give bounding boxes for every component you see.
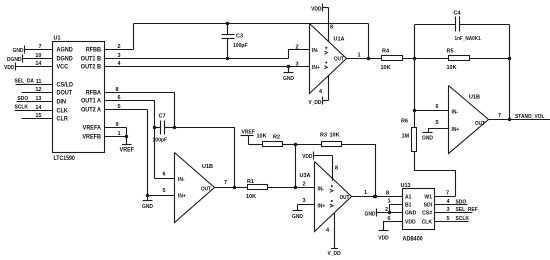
svg-text:1: 1	[388, 199, 391, 205]
svg-text:IN-: IN-	[178, 177, 185, 183]
svg-text:R1: R1	[247, 179, 254, 185]
svg-text:10K: 10K	[447, 65, 457, 71]
svg-text:1: 1	[358, 53, 361, 59]
svg-text:U1A: U1A	[334, 37, 345, 43]
capacitor C4 1nF	[415, 11, 510, 43]
wire OUT1A riser to IN-	[153, 101, 156, 179]
svg-text:6: 6	[388, 216, 391, 222]
wire R4 to R5	[403, 58, 449, 60]
svg-text:GND: GND	[292, 214, 303, 220]
svg-text:AD8400: AD8400	[403, 236, 423, 242]
U1 pin 11 wire	[16, 79, 53, 85]
power port VDD (U1A)	[311, 4, 328, 13]
svg-text:U1B: U1B	[469, 95, 480, 101]
ground symbol (U1B IN+)	[422, 133, 433, 142]
U1 pin 7 wire	[25, 44, 53, 50]
wire junction down to U3A IN-	[294, 145, 297, 190]
U13 pin 3 CS wire	[435, 207, 473, 213]
ground symbol (U13)	[365, 209, 377, 218]
svg-text:12: 12	[35, 87, 41, 93]
U1B(lower) pin 7 output wire	[215, 180, 248, 189]
IC U13 AD8400 digital potentiometer	[401, 183, 435, 243]
svg-text:RFBA: RFBA	[86, 91, 101, 97]
svg-text:1nF_NA0K1: 1nF_NA0K1	[455, 36, 481, 42]
svg-text:7: 7	[38, 44, 41, 50]
op-amp U1B (lower)	[175, 153, 215, 223]
wire R4 node to U1B IN-	[413, 59, 416, 113]
svg-text:RFBB: RFBB	[86, 48, 101, 54]
U1 pin 4 OUT2B wire	[105, 61, 310, 67]
svg-text:8: 8	[116, 87, 119, 93]
wire RFBB riser	[133, 24, 135, 50]
svg-text:5: 5	[163, 188, 166, 194]
svg-text:R2: R2	[273, 135, 280, 141]
U1 pin 10 wire	[23, 53, 53, 59]
svg-text:IN+: IN+	[318, 203, 326, 209]
power port V_DD (U1A)	[308, 97, 328, 107]
svg-text:10K: 10K	[246, 194, 256, 200]
ground symbol (U1A IN+)	[283, 67, 294, 83]
power port V_DD (U3A)	[328, 249, 341, 258]
svg-text:3: 3	[118, 53, 121, 59]
svg-text:AGND: AGND	[57, 48, 73, 54]
power port GND (U1 AGND)	[13, 46, 25, 55]
svg-text:R6: R6	[401, 119, 408, 125]
wire feedback drop to U1B output	[508, 59, 511, 122]
svg-text:10K: 10K	[330, 133, 340, 139]
svg-text:1: 1	[364, 190, 367, 196]
svg-text:OUT: OUT	[334, 56, 345, 62]
U1B pin 7 output wire	[489, 113, 550, 120]
svg-text:5: 5	[436, 120, 439, 126]
svg-text:OUT: OUT	[201, 186, 212, 192]
VREFA-VREFB tie wire	[125, 128, 128, 139]
wire R6 to W1 of U13	[415, 152, 456, 197]
wire C7 to output drop	[175, 128, 235, 188]
svg-text:R5: R5	[447, 49, 454, 55]
svg-text:OUT: OUT	[475, 121, 486, 127]
svg-text:1M: 1M	[402, 134, 410, 140]
svg-text:100pF: 100pF	[153, 137, 168, 143]
svg-text:5: 5	[447, 216, 450, 222]
svg-text:VREFA: VREFA	[83, 126, 101, 132]
U1A pin 4 power stub	[319, 76, 329, 101]
svg-text:VDD: VDD	[4, 65, 15, 71]
svg-text:IN+: IN+	[312, 65, 320, 71]
svg-text:OUT1 B: OUT1 B	[81, 57, 101, 63]
svg-text:U13: U13	[401, 183, 411, 189]
svg-text:SEL_DA: SEL_DA	[15, 78, 35, 84]
net label STAND_VOL	[515, 114, 545, 120]
svg-text:7: 7	[446, 191, 449, 197]
svg-text:U1: U1	[54, 36, 61, 42]
svg-text:V_DD: V_DD	[328, 251, 341, 257]
svg-text:13: 13	[35, 96, 41, 102]
wire OUT2A riser to IN+	[146, 110, 149, 198]
wire C4 right riser	[509, 25, 511, 59]
svg-text:SCLK: SCLK	[456, 216, 470, 222]
svg-text:CS/LD: CS/LD	[57, 83, 74, 89]
svg-text:2: 2	[385, 207, 388, 213]
svg-text:VREF: VREF	[242, 129, 255, 135]
svg-text:SDO: SDO	[456, 199, 467, 205]
svg-text:VDD: VDD	[302, 154, 313, 160]
svg-text:DGND: DGND	[57, 57, 73, 63]
U1A pin 3 label	[296, 62, 299, 68]
svg-text:14: 14	[35, 61, 42, 67]
svg-text:GND: GND	[13, 48, 24, 54]
svg-text:IN+: IN+	[178, 193, 186, 199]
wire feedback drop to U1A output	[368, 24, 370, 59]
svg-text:B1: B1	[405, 203, 412, 209]
svg-text:10K: 10K	[257, 134, 267, 140]
svg-text:STAND_VOL: STAND_VOL	[515, 114, 545, 120]
svg-text:U1B: U1B	[202, 164, 213, 170]
svg-text:SDO: SDO	[18, 96, 29, 102]
power port VDD (U3A)	[302, 152, 332, 161]
net label SDO (U1 DIN)	[18, 96, 29, 102]
svg-text:3: 3	[296, 62, 299, 68]
svg-text:DGND: DGND	[7, 57, 22, 63]
svg-text:10: 10	[35, 53, 41, 59]
U13 pin 2 GND wire	[377, 207, 403, 213]
svg-text:VCC: VCC	[57, 65, 69, 71]
svg-text:LTC1590: LTC1590	[54, 156, 75, 162]
svg-text:11: 11	[36, 79, 42, 85]
U1A pin 1 output wire	[347, 53, 382, 61]
resistor R5 10K	[447, 49, 512, 72]
capacitor C7 100pF	[153, 114, 175, 144]
svg-text:CS#: CS#	[422, 211, 432, 217]
svg-text:VDD: VDD	[311, 6, 322, 12]
net label SEL_REF	[456, 207, 478, 213]
svg-text:100pF: 100pF	[233, 43, 248, 49]
svg-text:8: 8	[330, 25, 333, 31]
capacitor C3 100pF	[222, 22, 249, 60]
resistor R3 10K	[296, 133, 342, 147]
U3A pin 3 wire	[298, 198, 315, 205]
U1 pin 9 VREFA wire	[105, 122, 127, 128]
svg-text:OUT1 A: OUT1 A	[81, 99, 101, 105]
svg-text:2: 2	[118, 44, 121, 50]
ground symbol (U1B lower IN+)	[142, 196, 153, 211]
net label SCLK (U1 CLK)	[15, 104, 29, 110]
U13 pin 1 B1 wire	[388, 199, 403, 215]
IC U1 LTC1590 dual DAC	[53, 36, 105, 163]
svg-text:V_DD: V_DD	[308, 100, 321, 106]
svg-text:GND: GND	[422, 135, 433, 141]
U3A pin 4 power stub	[326, 213, 335, 249]
wire R2 to junction	[283, 143, 298, 146]
U1 pin 1 VREFB wire	[105, 131, 127, 137]
resistor R4 10K	[381, 49, 403, 72]
svg-text:14: 14	[35, 105, 42, 111]
svg-text:7: 7	[224, 180, 227, 186]
op-amp U1B	[449, 86, 489, 154]
svg-text:SEL_REF: SEL_REF	[456, 207, 478, 213]
svg-text:IN+: IN+	[452, 127, 460, 133]
svg-text:VDD: VDD	[378, 235, 389, 241]
svg-text:GND: GND	[142, 204, 153, 210]
U13 pin 4 SDI wire	[435, 199, 468, 205]
U3A pin 2 label	[303, 182, 306, 188]
svg-text:3: 3	[303, 198, 306, 204]
wire RFBA riser	[173, 93, 176, 130]
U13 pin 5 CLK wire	[435, 216, 469, 222]
U1 pin 14 wire	[16, 61, 53, 67]
svg-text:2: 2	[303, 182, 306, 188]
power port VDD (U13)	[378, 231, 389, 242]
svg-text:CLK: CLK	[57, 109, 69, 115]
wire top feedback run (RFBB to U1A output)	[134, 23, 369, 25]
U1 pin 12 wire	[22, 87, 53, 93]
op-amp U3A	[300, 162, 352, 232]
svg-text:CLK: CLK	[422, 220, 433, 226]
net label SEL_DA	[15, 78, 35, 84]
svg-text:IN-: IN-	[452, 109, 459, 115]
svg-text:A1: A1	[405, 195, 412, 201]
svg-text:C4: C4	[454, 11, 462, 17]
svg-text:VDD: VDD	[405, 220, 416, 226]
svg-text:C7: C7	[159, 114, 166, 120]
svg-text:6: 6	[436, 104, 439, 110]
svg-text:OUT2 B: OUT2 B	[81, 65, 101, 71]
svg-text:6: 6	[163, 172, 166, 178]
power port DGND (U1 DGND)	[7, 55, 23, 64]
svg-text:8: 8	[386, 191, 389, 197]
svg-text:DOUT: DOUT	[57, 91, 73, 97]
svg-text:15: 15	[35, 113, 41, 119]
power port VREF (below U1)	[120, 137, 135, 154]
svg-text:3: 3	[447, 207, 450, 213]
svg-text:SDI: SDI	[424, 203, 433, 209]
svg-text:7: 7	[498, 113, 501, 119]
svg-text:6: 6	[118, 95, 121, 101]
U1 pin 13 wire	[17, 96, 53, 102]
resistor R2 10K	[249, 134, 283, 147]
U13 pin 6 VDD wire	[384, 216, 403, 231]
wire R3 to feedback corner	[342, 145, 378, 199]
U1 pin 3 OUT1B wire	[105, 53, 289, 59]
net label VREF (mid)	[241, 129, 255, 144]
svg-text:8: 8	[335, 166, 338, 172]
U1 pin 2 RFBB wire	[105, 44, 134, 50]
svg-text:U3A: U3A	[300, 173, 311, 179]
U1 pin 8 RFBA wire	[105, 87, 175, 93]
U1B(lower) IN- wire	[155, 172, 175, 179]
U3A pin 1 output wire	[352, 190, 403, 198]
ground symbol (U3A IN+)	[292, 205, 303, 221]
svg-text:10K: 10K	[381, 65, 391, 71]
svg-text:DIN: DIN	[57, 100, 66, 106]
U1 pin 5 OUT2A wire	[105, 104, 148, 110]
U1B IN+ wire	[429, 120, 449, 132]
svg-text:IN-: IN-	[312, 48, 319, 54]
svg-text:OUT: OUT	[340, 195, 351, 201]
wire R1 to U3A IN-	[268, 187, 315, 189]
U13 pin 7 W1 wire	[435, 191, 456, 197]
resistor R1 10K	[246, 179, 268, 200]
U1 pin 14 wire	[15, 105, 53, 111]
net label SDO (U13)	[456, 199, 467, 205]
svg-text:R4: R4	[382, 49, 390, 55]
U13 pin 8 label	[386, 191, 389, 197]
junction OUT2B/GND	[287, 65, 290, 68]
svg-text:CLR: CLR	[57, 117, 69, 123]
svg-text:GND: GND	[283, 76, 294, 82]
junction R4/R5/C4	[413, 57, 416, 60]
U1 pin 15 wire	[22, 113, 53, 119]
svg-text:5: 5	[118, 104, 121, 110]
svg-text:OUT2 A: OUT2 A	[81, 108, 101, 114]
svg-text:GND: GND	[365, 211, 376, 217]
svg-text:R3: R3	[320, 133, 327, 139]
U1A pin 8 power stub	[329, 8, 334, 42]
svg-text:VREF: VREF	[120, 147, 135, 153]
U1 pin 6 OUT1A wire	[105, 95, 155, 101]
svg-text:C3: C3	[236, 34, 243, 40]
power port VDD (U1 VCC)	[4, 63, 15, 72]
svg-text:1: 1	[118, 131, 121, 137]
svg-text:W1: W1	[424, 195, 432, 201]
net label SCLK (U13)	[456, 216, 470, 222]
svg-text:2: 2	[296, 45, 299, 51]
wire OUT1B jog to U1A IN-	[289, 50, 310, 59]
wire C4 left riser	[414, 25, 416, 59]
U1A pin 2 label	[296, 45, 299, 51]
svg-text:VREFB: VREFB	[82, 135, 101, 141]
svg-text:GND: GND	[405, 211, 416, 217]
op-amp U1A	[310, 24, 347, 94]
U1B IN- wire	[415, 104, 449, 111]
svg-text:IN-: IN-	[318, 186, 325, 192]
U1B(lower) IN+ wire	[148, 188, 175, 196]
svg-text:SCLK: SCLK	[15, 104, 29, 110]
resistor R6 1M	[401, 111, 417, 152]
U3A pin 8 power stub	[333, 156, 339, 181]
svg-text:9: 9	[116, 122, 119, 128]
